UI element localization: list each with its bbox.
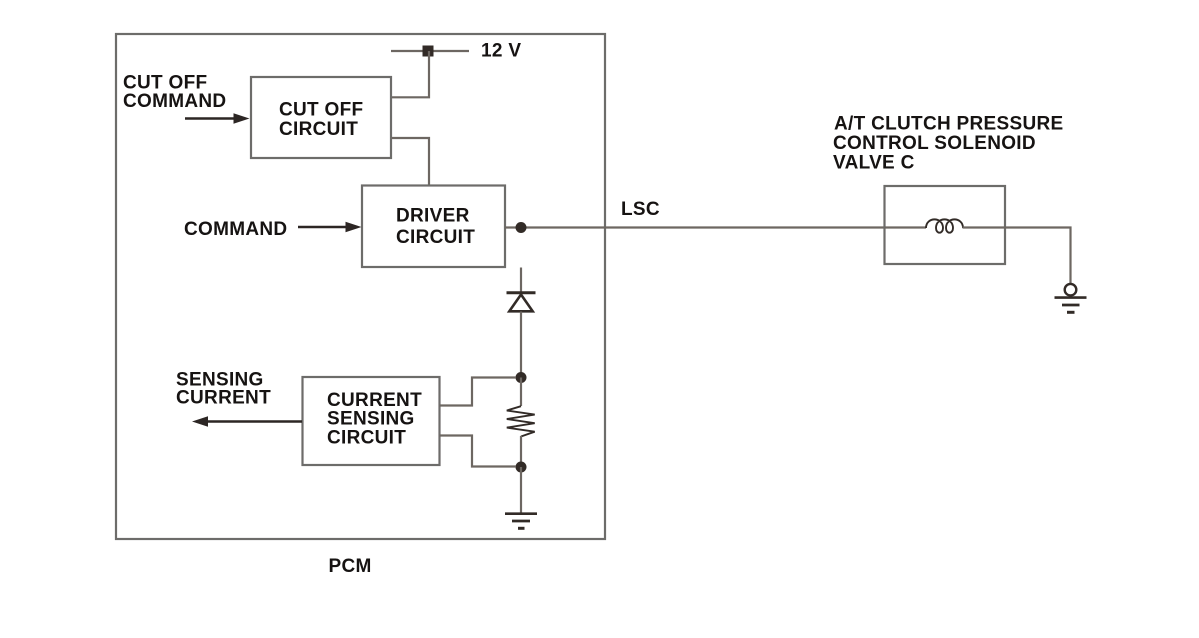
- arrow cut off command input: [185, 113, 250, 124]
- wire junction B to ground: [520, 467, 522, 513]
- arrow sensing current output: [192, 416, 302, 427]
- svg-text:A/T CLUTCH PRESSURECONTROL SOL: A/T CLUTCH PRESSURECONTROL SOLENOIDVALVE…: [833, 114, 1064, 174]
- svg-text:PCM: PCM: [329, 556, 372, 577]
- wire cut off circuit to driver circuit: [392, 138, 430, 185]
- wire solenoid box left lead: [885, 226, 927, 228]
- wire solenoid to chassis ground: [1005, 228, 1071, 284]
- svg-text:CUT OFFCIRCUIT: CUT OFFCIRCUIT: [279, 100, 363, 141]
- wire LSC net: driver output to solenoid: [505, 226, 885, 228]
- wire diode to junction A: [520, 312, 522, 378]
- solenoid coil inductor: [926, 219, 963, 232]
- wire cut off circuit to 12 V rail: [392, 51, 430, 97]
- solenoid valve block: [885, 186, 1006, 264]
- svg-text:LSC: LSC: [621, 199, 660, 220]
- svg-text:CUT OFFCOMMAND: CUT OFFCOMMAND: [123, 73, 226, 113]
- wire sense top lead: [440, 378, 517, 406]
- wire resistor to junction B: [520, 436, 522, 467]
- svg-text:COMMAND: COMMAND: [184, 219, 287, 240]
- svg-text:12 V: 12 V: [481, 41, 521, 62]
- svg-text:DRIVERCIRCUIT: DRIVERCIRCUIT: [396, 206, 475, 249]
- arrow command input: [298, 222, 362, 233]
- cut off circuit block: [251, 77, 391, 158]
- 12 V supply rail: [391, 50, 469, 52]
- svg-text:SENSINGCURRENT: SENSINGCURRENT: [176, 370, 271, 409]
- current sensing circuit block: [303, 377, 440, 465]
- wire driver bottom to diode: [520, 268, 522, 295]
- junction node B (bottom of sense resistor): [516, 462, 527, 473]
- 12 V tap node (black square): [423, 46, 434, 57]
- wire sense bottom lead: [440, 436, 517, 467]
- diode (cathode up): [507, 293, 536, 312]
- svg-text:CURRENTSENSINGCIRCUIT: CURRENTSENSINGCIRCUIT: [327, 390, 422, 448]
- driver circuit block: [362, 186, 505, 268]
- sense resistor (zigzag): [507, 406, 535, 436]
- PCM box: [116, 34, 605, 539]
- chassis ground symbol (with terminal ring): [1055, 284, 1087, 312]
- junction node at driver output: [516, 222, 527, 233]
- wire junction A to resistor: [520, 378, 522, 407]
- wire solenoid box right lead: [963, 226, 1006, 228]
- PCM ground symbol: [505, 514, 537, 529]
- junction node A (top of sense resistor): [516, 372, 527, 383]
